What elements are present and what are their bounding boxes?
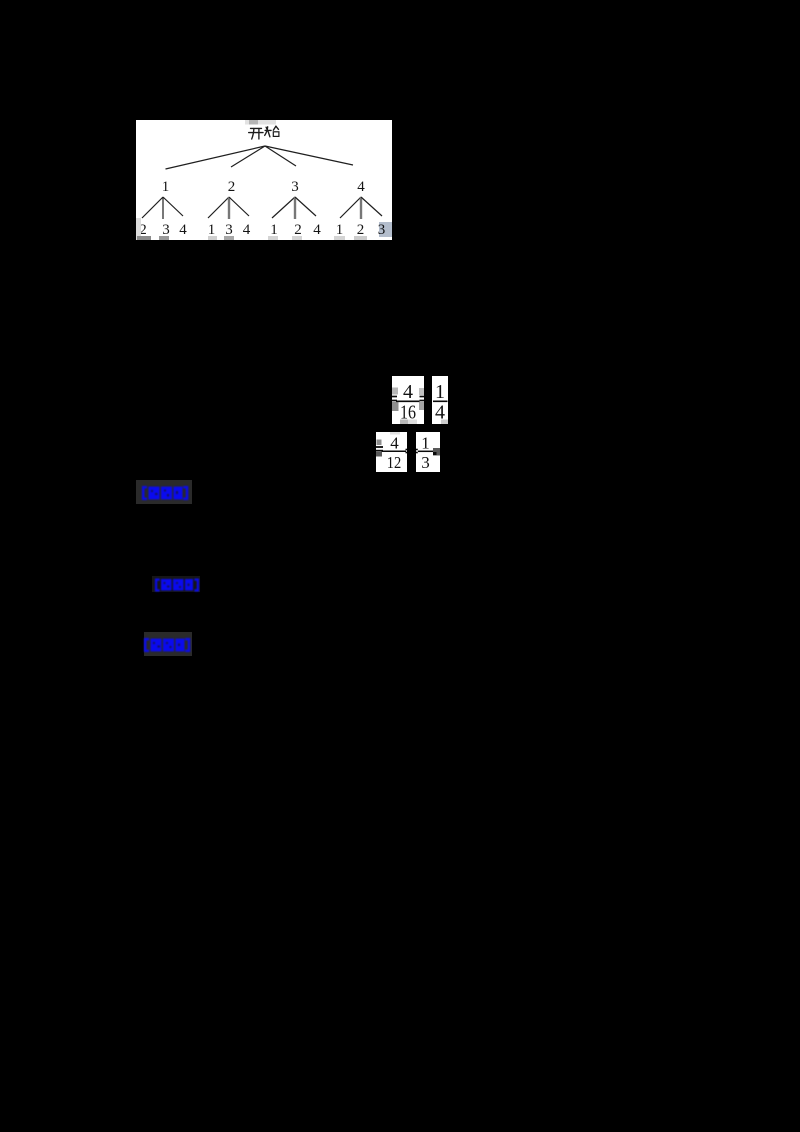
svg-text:3: 3 (421, 453, 430, 472)
glyph 始 (265, 127, 268, 136)
formula image: 1/3 (white panel) (416, 432, 440, 472)
fraction bar (396, 400, 420, 402)
svg-text:1: 1 (208, 222, 216, 238)
svg-text:3: 3 (162, 222, 170, 238)
glyph 开 (251, 127, 262, 129)
artifact dark block right (433, 448, 440, 456)
label 1 blue text 【点评】 (141, 485, 189, 506)
wire root→4 (265, 146, 353, 165)
svg-text:4: 4 (243, 222, 251, 238)
wire root→1 (166, 146, 266, 169)
equals sign right edge marks (406, 450, 408, 453)
fan under 1 (142, 197, 163, 218)
node 开始 (start) : hand-drawn glyphs (249, 126, 279, 139)
tree diagram image (white panel) (136, 120, 392, 240)
fraction bar (382, 450, 407, 452)
label 2 dark panel (152, 576, 200, 592)
fan under 2 (208, 197, 229, 218)
subtree fans (142, 197, 382, 219)
label 3 dark panel (144, 632, 192, 656)
label 3 blue text 【解答】 (143, 637, 191, 658)
level-1 node labels (162, 179, 366, 195)
fraction bar (433, 400, 448, 402)
svg-text:3: 3 (291, 179, 299, 195)
svg-text:4: 4 (179, 222, 187, 238)
equals sign left (373, 447, 383, 451)
label 1 dark panel (136, 480, 192, 504)
svg-text:4: 4 (390, 434, 399, 453)
svg-text:4: 4 (435, 402, 445, 424)
wire root→2 (231, 146, 265, 167)
svg-text:1: 1 (270, 222, 278, 238)
svg-text:2: 2 (294, 222, 302, 238)
fraction bar (418, 450, 433, 452)
label 2 blue text 【分析】 (154, 578, 200, 597)
svg-text:1: 1 (336, 222, 344, 238)
svg-text:12: 12 (387, 453, 402, 472)
svg-text:4: 4 (403, 381, 413, 403)
leaf node labels (139, 222, 385, 238)
svg-text:1: 1 (421, 434, 430, 453)
svg-text:4: 4 (357, 179, 365, 195)
formula image: = 4/12 (white panel) (376, 432, 407, 472)
svg-text:2: 2 (228, 179, 236, 195)
artifact gray blocks (392, 388, 398, 395)
formula image: = 4/16 (white panel) (392, 376, 424, 424)
svg-text:16: 16 (400, 402, 416, 424)
svg-text:2: 2 (357, 222, 365, 238)
fan under 3 (272, 197, 295, 218)
fan under 4 (340, 197, 361, 218)
artifact gray block above title (245, 120, 276, 125)
svg-text:3: 3 (225, 222, 233, 238)
artifact blue-gray block behind last leaf 3 (379, 222, 392, 237)
branch lines root to level-1 (166, 146, 354, 169)
svg-text:1: 1 (435, 381, 445, 403)
artifact gray blocks bottom row (136, 218, 367, 241)
equals sign left (389, 397, 397, 401)
equals sign right (420, 397, 427, 401)
svg-text:1: 1 (162, 179, 170, 195)
equals marks at left edge (416, 450, 418, 453)
wire root→3 (265, 146, 296, 166)
svg-text:4: 4 (313, 222, 321, 238)
formula image: 1/4 (white panel) (432, 376, 448, 424)
